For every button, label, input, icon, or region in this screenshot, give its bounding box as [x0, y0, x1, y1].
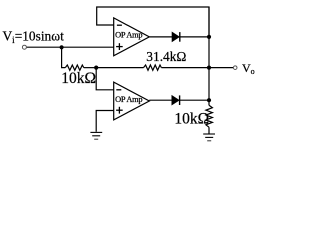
ground symbol right — [203, 134, 215, 141]
output terminal circle — [233, 66, 237, 70]
wire D2 to node E — [180, 99, 209, 101]
wire node B down to U2 minus input — [96, 68, 114, 90]
node B junction dot — [94, 66, 98, 70]
op-amp U2 triangle — [114, 82, 150, 120]
U1 plus sign — [116, 46, 123, 48]
wire U2 plus input to ground — [96, 111, 114, 132]
svg-text:Vo: Vo — [242, 61, 255, 76]
wire right bus vertical — [208, 7, 210, 100]
U2 minus sign — [116, 89, 121, 91]
input terminal circle — [22, 45, 26, 49]
node A junction dot input — [60, 45, 64, 49]
node D junction dot — [207, 35, 211, 39]
op-amp U1 triangle — [114, 18, 150, 56]
wire node E down to R3 — [208, 100, 210, 105]
node C junction dot — [207, 66, 211, 70]
wire D1 to node D — [180, 36, 209, 38]
diode D1 — [172, 32, 179, 42]
svg-text:Vi=10sinωt: Vi=10sinωt — [3, 29, 65, 46]
ground symbol left — [90, 132, 102, 139]
U1 minus sign — [117, 24, 122, 26]
svg-text:OP Amp: OP Amp — [115, 95, 143, 104]
wire U1 feedback loop — [97, 7, 209, 37]
diode D2 — [172, 95, 179, 105]
wire R2 to node C — [161, 67, 209, 69]
wire node B to R2 — [96, 67, 143, 69]
resistor R3 10k vertical zigzag — [206, 105, 213, 127]
wire R1 to node B — [84, 67, 96, 69]
resistor R2 31.4k horizontal zigzag — [144, 65, 162, 70]
svg-text:31.4kΩ: 31.4kΩ — [146, 49, 186, 64]
wire node A down to R1 row — [62, 47, 66, 67]
node E junction dot — [207, 98, 211, 102]
svg-text:10kΩ: 10kΩ — [174, 110, 209, 127]
wire input row Vi to +input of U1 — [27, 46, 114, 48]
wire node C to output terminal — [209, 67, 233, 69]
resistor R1 10k horizontal zigzag — [65, 65, 84, 70]
wire U1 output to D1 — [149, 36, 172, 38]
U2 plus sign — [116, 109, 123, 111]
svg-text:10kΩ: 10kΩ — [61, 70, 96, 87]
svg-text:OP Amp: OP Amp — [115, 31, 143, 40]
wire U2 output to D2 — [149, 99, 172, 101]
wire R3 to ground — [208, 127, 210, 134]
